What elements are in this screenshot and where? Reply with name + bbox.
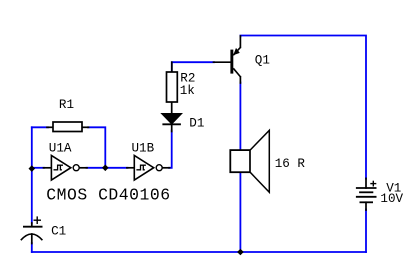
svg-text:R1: R1 — [59, 98, 74, 112]
svg-text:C1: C1 — [51, 224, 66, 238]
svg-text:1k: 1k — [180, 84, 195, 98]
svg-text:U1B: U1B — [132, 142, 155, 156]
svg-text:10V: 10V — [380, 192, 403, 206]
svg-text:16 R: 16 R — [275, 157, 306, 171]
svg-text:CMOS CD40106: CMOS CD40106 — [46, 185, 170, 204]
svg-text:Q1: Q1 — [255, 54, 270, 68]
svg-text:U1A: U1A — [49, 142, 72, 156]
svg-text:D1: D1 — [189, 116, 204, 130]
